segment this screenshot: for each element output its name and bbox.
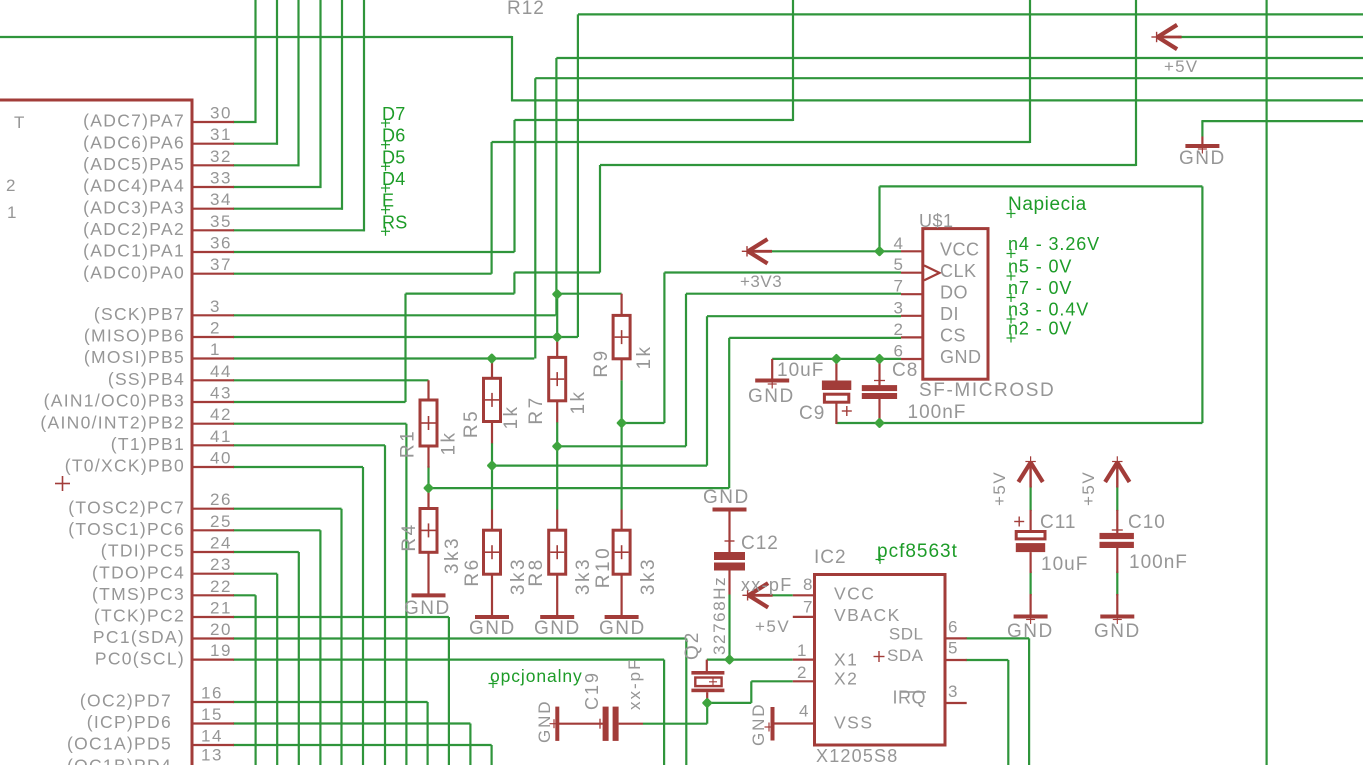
- ground label above C12: [703, 487, 750, 508]
- svg-text:23: 23: [210, 555, 232, 574]
- svg-text:25: 25: [210, 512, 232, 531]
- wire +5V horizontal top right: [1178, 36, 1363, 38]
- ground C10: [1100, 615, 1134, 624]
- junction VCC box: [874, 246, 885, 257]
- svg-text:6: 6: [948, 618, 958, 637]
- capacitor C8: [862, 359, 897, 424]
- svg-text:30: 30: [210, 104, 232, 123]
- svg-text:IC2: IC2: [814, 547, 847, 568]
- ground R4: [412, 593, 446, 597]
- svg-text:(OC1B)PD4: (OC1B)PD4: [67, 756, 172, 765]
- ground label C11: [1007, 621, 1054, 642]
- label opcjonalny: [489, 666, 583, 688]
- label +5V C11 rotated: [990, 471, 1009, 506]
- wire pin21: [233, 617, 449, 765]
- svg-text:100nF: 100nF: [908, 402, 967, 423]
- junction R5-R6 divider: [486, 460, 497, 471]
- ground C11: [1014, 615, 1048, 624]
- ground near C19 rotated: [550, 707, 604, 741]
- wire pin31 PA6: [233, 143, 278, 145]
- wire pin30 PA7: [233, 121, 257, 123]
- svg-text:1k: 1k: [634, 344, 655, 369]
- IC IC2 X1205S8 body: [815, 575, 946, 746]
- IC U1 pin numbers: [201, 104, 232, 765]
- label U$1: [919, 211, 954, 231]
- svg-text:GND: GND: [535, 700, 554, 743]
- wire vertical x793 to top: [792, 0, 794, 121]
- wire SCK top horizontal y58: [556, 57, 1363, 59]
- svg-text:n4 - 3.26V: n4 - 3.26V: [1008, 234, 1100, 254]
- svg-text:IRQ: IRQ: [892, 688, 926, 708]
- wire LCD vertical x277: [276, 0, 278, 145]
- svg-text:+5V: +5V: [1164, 57, 1198, 76]
- label R12: [507, 0, 545, 19]
- junction R7 net upper: [552, 289, 563, 300]
- svg-text:37: 37: [210, 255, 232, 274]
- label C12: [741, 533, 779, 554]
- wire pin19 SCL: [233, 660, 664, 765]
- svg-text:R9: R9: [591, 348, 612, 377]
- svg-text:Napiecia: Napiecia: [1008, 194, 1087, 215]
- net label Napiecia values: [1007, 194, 1101, 343]
- capacitor C19: [595, 707, 643, 741]
- supply arrow +5V top right: [1151, 25, 1181, 49]
- svg-text:X1: X1: [834, 650, 858, 670]
- wire C11 gnd link: [1029, 571, 1031, 595]
- svg-text:35: 35: [210, 212, 232, 231]
- wire pin43 net: [233, 273, 514, 403]
- svg-text:5: 5: [894, 255, 904, 274]
- svg-text:n2 - 0V: n2 - 0V: [1008, 319, 1072, 339]
- svg-text:21: 21: [210, 599, 232, 618]
- svg-text:1: 1: [7, 203, 17, 222]
- IC IC2 right pin stubs: [945, 638, 967, 703]
- label +3V3: [740, 272, 782, 291]
- svg-text:1: 1: [797, 641, 807, 660]
- wire pin15: [233, 724, 470, 765]
- junction R1-R4 divider: [423, 483, 434, 494]
- junction X1-C12: [724, 654, 735, 665]
- svg-text:GND: GND: [404, 598, 451, 619]
- svg-text:(ADC2)PA2: (ADC2)PA2: [83, 219, 185, 239]
- svg-text:2: 2: [894, 320, 904, 339]
- wire SD GND row: [772, 358, 901, 360]
- wire LCD vertical x255.5: [254, 0, 256, 123]
- wire pin33 PA4: [233, 186, 322, 188]
- label pcf8563t: [876, 541, 958, 564]
- label C10: [1128, 512, 1166, 533]
- svg-text:16: 16: [201, 684, 223, 703]
- svg-text:100nF: 100nF: [1129, 552, 1188, 573]
- svg-text:3: 3: [210, 297, 221, 316]
- wire pin25: [233, 530, 320, 765]
- wire R8 top link: [556, 446, 558, 509]
- wire staircase drop x600: [599, 165, 601, 273]
- svg-text:pcf8563t: pcf8563t: [877, 541, 958, 562]
- supply arrow at IC2 VCC: [742, 583, 772, 607]
- IC IC2 VSS pin and rotated ground: [765, 707, 815, 741]
- svg-text:VCC: VCC: [940, 240, 980, 260]
- junction R9 divider: [616, 417, 627, 428]
- wire IC2 pin8 link: [772, 594, 793, 596]
- resistor R6: [484, 510, 501, 618]
- IC U1 pin names: [40, 111, 185, 765]
- supply arrow +5V C10: [1105, 456, 1129, 487]
- svg-text:+5V: +5V: [990, 471, 1009, 506]
- svg-text:X2: X2: [834, 669, 858, 689]
- wire pin22: [233, 595, 256, 765]
- IC U1 left edge fragments: [6, 113, 25, 222]
- resistor R9: [613, 294, 630, 381]
- label C8: [892, 360, 918, 381]
- svg-text:R12: R12: [507, 0, 545, 19]
- wire +3V3 to VCC: [770, 250, 901, 252]
- svg-text:GND: GND: [1007, 621, 1054, 642]
- ground label top right: [1179, 148, 1226, 169]
- svg-text:GND: GND: [748, 386, 795, 407]
- junction crystal bottom: [702, 697, 713, 708]
- svg-text:42: 42: [210, 405, 232, 424]
- svg-text:43: 43: [210, 384, 232, 403]
- wire GND stub top right: [1201, 121, 1363, 136]
- svg-text:(ADC7)PA7: (ADC7)PA7: [83, 111, 185, 131]
- wire long horizontal y100: [511, 99, 1363, 101]
- label +5V C10 rotated: [1079, 471, 1098, 506]
- svg-text:(AIN1/OC0)PB3: (AIN1/OC0)PB3: [44, 391, 185, 411]
- resistor R10: [613, 510, 630, 618]
- svg-text:R7: R7: [526, 395, 547, 424]
- wire C11 supply link: [1029, 486, 1031, 511]
- junction C8 bottom: [874, 417, 885, 428]
- wire long vertical right x1267: [1265, 0, 1267, 765]
- svg-text:C8: C8: [892, 360, 918, 381]
- svg-text:E: E: [382, 191, 394, 211]
- svg-text:(SS)PB4: (SS)PB4: [108, 369, 185, 389]
- svg-text:(MOSI)PB5: (MOSI)PB5: [84, 347, 185, 367]
- IC IC2 pin numbers: [797, 575, 958, 721]
- ground R8: [540, 615, 574, 619]
- wire X2 route: [707, 681, 793, 703]
- capacitor C11: [1014, 510, 1045, 617]
- wire LCD vertical x364: [363, 0, 365, 231]
- label +5V at VBACK: [755, 617, 790, 636]
- label X1205S8: [816, 746, 898, 765]
- svg-text:+5V: +5V: [755, 617, 790, 636]
- svg-text:R1: R1: [398, 429, 419, 458]
- wire R7 column upper: [556, 294, 558, 337]
- wire MOSI top horizontal y78: [535, 77, 1363, 79]
- wire pin36 PA1: [233, 120, 515, 252]
- svg-text:2: 2: [797, 663, 807, 682]
- svg-text:DI: DI: [940, 304, 959, 324]
- wire LCD vertical x320.5: [319, 0, 321, 188]
- resistor R7: [549, 337, 566, 422]
- connector U$1 pin stubs: [901, 251, 923, 359]
- svg-text:VCC: VCC: [834, 584, 875, 604]
- crystal Q2: [691, 660, 724, 703]
- svg-text:VSS: VSS: [834, 713, 874, 733]
- svg-text:R10: R10: [593, 546, 614, 588]
- svg-text:PC0(SCL): PC0(SCL): [95, 648, 185, 668]
- svg-text:C9: C9: [799, 403, 825, 424]
- wire pin43 jog y272.5: [514, 271, 600, 273]
- svg-text:24: 24: [210, 534, 232, 553]
- wire pin34 PA3: [233, 208, 343, 210]
- svg-text:(MISO)PB6: (MISO)PB6: [84, 326, 185, 346]
- ground label near C9: [748, 386, 795, 407]
- svg-text:44: 44: [210, 362, 232, 381]
- svg-text:+3V3: +3V3: [740, 272, 782, 291]
- wire pin41: [233, 445, 385, 765]
- label 10uF C9: [777, 360, 824, 381]
- svg-text:3k3: 3k3: [442, 536, 463, 574]
- wire DI riser: [707, 316, 901, 465]
- svg-text:(TOSC1)PC6: (TOSC1)PC6: [68, 519, 185, 539]
- wire pin40: [233, 467, 363, 765]
- svg-text:14: 14: [201, 727, 223, 746]
- svg-text:40: 40: [210, 449, 232, 468]
- svg-text:DO: DO: [940, 282, 968, 302]
- supply arrow +5V C11: [1018, 456, 1042, 487]
- svg-text:T: T: [14, 113, 25, 132]
- wire X1 row: [707, 658, 793, 660]
- wire CS riser: [729, 338, 901, 488]
- wire pin1 MOSI: [233, 78, 535, 358]
- ground labels under resistors: [404, 598, 646, 639]
- svg-text:7: 7: [803, 598, 813, 617]
- svg-text:41: 41: [210, 427, 232, 446]
- junction C9 top: [831, 353, 842, 364]
- wire pin44 SS to R1: [233, 379, 429, 381]
- svg-text:C19: C19: [582, 671, 602, 710]
- wire R5-R6 node: [492, 443, 707, 467]
- svg-text:20: 20: [210, 620, 232, 639]
- wire CLK horizontal y272.5: [664, 271, 901, 273]
- svg-text:SF-MICROSD: SF-MICROSD: [919, 380, 1055, 401]
- wire pin42: [233, 424, 406, 765]
- wire MISO top horizontal: [578, 13, 1363, 15]
- svg-text:CLK: CLK: [940, 261, 977, 281]
- svg-text:4: 4: [894, 234, 904, 253]
- wire C10 gnd link: [1116, 571, 1118, 595]
- wire R9 bottom to junction: [620, 380, 622, 423]
- resistor R4: [420, 488, 437, 595]
- svg-text:3: 3: [894, 298, 904, 317]
- svg-text:xx-pF: xx-pF: [741, 575, 793, 595]
- capacitor C12: [714, 552, 745, 595]
- svg-text:GND: GND: [703, 487, 750, 508]
- svg-text:4: 4: [799, 702, 809, 721]
- IC IC2 left pin stubs: [793, 595, 815, 681]
- svg-text:6: 6: [894, 342, 904, 361]
- svg-text:(ADC1)PA1: (ADC1)PA1: [83, 241, 185, 261]
- svg-text:R4: R4: [399, 522, 420, 551]
- capacitor C10: [1100, 510, 1134, 617]
- wire pin35 PA2: [233, 229, 365, 231]
- supply arrow +3V3: [742, 239, 772, 263]
- wire pin20 SDA: [233, 639, 686, 765]
- svg-text:(T1)PB1: (T1)PB1: [111, 434, 185, 454]
- connector U$1 CLK mark: [924, 265, 940, 280]
- svg-text:(AIN0/INT2)PB2: (AIN0/INT2)PB2: [40, 412, 185, 432]
- wire LCD vertical x342: [341, 0, 343, 210]
- wire pin14: [233, 745, 492, 765]
- svg-text:22: 22: [210, 577, 232, 596]
- ground top right: [1185, 137, 1219, 154]
- wire DO riser: [686, 294, 901, 447]
- wire CLK drop to R9 divider: [622, 273, 665, 424]
- junction R7-R8 divider: [552, 441, 563, 452]
- svg-text:(ADC6)PA6: (ADC6)PA6: [83, 132, 185, 152]
- svg-text:7: 7: [894, 277, 904, 296]
- wire pin26: [233, 509, 342, 765]
- svg-text:(TDO)PC4: (TDO)PC4: [92, 562, 185, 582]
- svg-text:15: 15: [201, 705, 223, 724]
- wire pin24: [233, 552, 299, 765]
- label 10uF C11: [1041, 554, 1088, 575]
- svg-text:GND: GND: [599, 618, 646, 639]
- label SF-MICROSD: [919, 380, 1055, 401]
- resistor R1: [420, 380, 437, 467]
- label xx-pF at VCC: [741, 575, 793, 595]
- svg-text:X1205S8: X1205S8: [816, 746, 898, 765]
- IC U1 AVR body: [0, 100, 192, 765]
- svg-text:(OC2)PD7: (OC2)PD7: [80, 691, 172, 711]
- svg-text:1k: 1k: [568, 389, 589, 414]
- svg-text:10uF: 10uF: [777, 360, 824, 381]
- IC IC2 pin labels right: [887, 625, 926, 708]
- svg-text:GND: GND: [940, 347, 982, 367]
- wire R7-R8 node: [557, 422, 686, 447]
- connector U$1 SF-MICROSD body: [923, 229, 988, 380]
- svg-text:+5V: +5V: [1079, 471, 1098, 506]
- svg-text:8: 8: [803, 575, 813, 594]
- svg-text:1k: 1k: [501, 404, 522, 429]
- svg-text:GND: GND: [534, 618, 581, 639]
- svg-text:1k: 1k: [439, 430, 460, 455]
- IC IC2 pin labels left: [834, 584, 901, 733]
- svg-text:CS: CS: [940, 326, 966, 346]
- svg-text:13: 13: [201, 746, 223, 765]
- wire pin2 MISO: [233, 14, 578, 337]
- svg-text:26: 26: [210, 490, 232, 509]
- svg-text:xx-pF: xx-pF: [625, 658, 644, 711]
- wire pin32 PA5: [233, 164, 300, 166]
- label 100nF C10: [1129, 552, 1188, 573]
- svg-text:R5: R5: [461, 409, 482, 438]
- svg-text:3: 3: [948, 682, 958, 701]
- net labels D7 D6 D5 D4 E RS: [381, 104, 408, 236]
- wire C10 supply link: [1116, 486, 1118, 511]
- IC U1 pin stubs: [192, 122, 234, 745]
- wire pin16: [233, 702, 428, 765]
- label 100nF C8: [908, 402, 967, 423]
- svg-text:3k3: 3k3: [573, 557, 594, 595]
- wire VCC loop box: [836, 186, 1202, 423]
- wire horizontal y165: [600, 164, 1136, 166]
- wire PA1 horizontal y120: [515, 119, 794, 121]
- connector U$1 pin numbers: [894, 234, 904, 361]
- wire vertical x1030 to top: [1029, 0, 1031, 143]
- junction C8 top: [874, 353, 885, 364]
- label xx-pF rotated: [625, 658, 644, 711]
- IC U1 origin cross: [55, 476, 70, 491]
- svg-text:GND: GND: [1179, 148, 1226, 169]
- ground R10: [605, 615, 639, 619]
- svg-text:19: 19: [210, 641, 232, 660]
- wire PA-bus horizontal upper-left: [0, 36, 512, 38]
- ground above C12: [713, 510, 747, 553]
- wire vertical x1136 to top: [1135, 0, 1137, 166]
- svg-text:2: 2: [6, 176, 16, 195]
- svg-text:C11: C11: [1040, 512, 1076, 533]
- wire pin23: [233, 574, 277, 765]
- wire crystal bottom to C19 row: [643, 703, 707, 724]
- resistor R5: [484, 359, 501, 444]
- svg-text:GND: GND: [469, 618, 516, 639]
- svg-text:n7 - 0V: n7 - 0V: [1008, 278, 1072, 298]
- wire LCD vertical x298.5: [297, 0, 299, 166]
- ground label VSS rotated: [749, 703, 768, 746]
- ground near C9: [755, 359, 789, 389]
- label IC2: [814, 547, 847, 568]
- svg-text:31: 31: [210, 125, 232, 144]
- svg-text:GND: GND: [1094, 621, 1141, 642]
- svg-text:32: 32: [210, 147, 232, 166]
- svg-text:SDL: SDL: [889, 625, 924, 644]
- svg-text:n5 - 0V: n5 - 0V: [1008, 257, 1072, 277]
- svg-text:(ADC4)PA4: (ADC4)PA4: [83, 176, 185, 196]
- svg-text:GND: GND: [749, 703, 768, 746]
- svg-text:(TCK)PC2: (TCK)PC2: [94, 606, 185, 626]
- svg-text:C12: C12: [741, 533, 779, 554]
- svg-text:VBACK: VBACK: [834, 605, 901, 625]
- svg-text:SDA: SDA: [887, 646, 924, 665]
- svg-text:opcjonalny: opcjonalny: [490, 666, 583, 686]
- svg-text:2: 2: [210, 319, 221, 338]
- wire R9-R10 node: [620, 423, 622, 510]
- svg-text:34: 34: [210, 190, 232, 209]
- svg-text:36: 36: [210, 234, 232, 253]
- wire R9 top link: [556, 293, 621, 295]
- connector U$1 pin labels: [940, 240, 982, 368]
- junction R7-MISO: [552, 331, 563, 342]
- svg-text:1: 1: [210, 340, 221, 359]
- label C11: [1040, 512, 1076, 533]
- svg-text:32768Hz: 32768Hz: [710, 576, 729, 655]
- label Q2: [682, 631, 703, 660]
- label C19: [582, 671, 602, 710]
- label 32768Hz: [710, 576, 729, 655]
- svg-text:n3 - 0.4V: n3 - 0.4V: [1008, 300, 1089, 320]
- wire IC2 pin6 SDL: [966, 638, 1029, 765]
- svg-text:(ADC3)PA3: (ADC3)PA3: [83, 197, 185, 217]
- svg-text:PC1(SDA): PC1(SDA): [93, 627, 185, 647]
- svg-text:(ADC5)PA5: (ADC5)PA5: [83, 154, 185, 174]
- svg-text:(SCK)PB7: (SCK)PB7: [94, 304, 185, 324]
- wire R1-R4 node: [429, 466, 730, 489]
- svg-text:(ADC0)PA0: (ADC0)PA0: [83, 262, 185, 282]
- svg-text:U$1: U$1: [919, 211, 954, 231]
- svg-text:R6: R6: [462, 557, 483, 586]
- wire PA0 horizontal y142: [492, 141, 1030, 143]
- svg-text:Q2: Q2: [682, 631, 703, 660]
- svg-text:10uF: 10uF: [1041, 554, 1088, 575]
- svg-text:(OC1A)PD5: (OC1A)PD5: [67, 734, 172, 754]
- svg-text:3k3: 3k3: [638, 557, 659, 595]
- svg-text:C10: C10: [1128, 512, 1166, 533]
- svg-text:(TOSC2)PC7: (TOSC2)PC7: [68, 497, 185, 517]
